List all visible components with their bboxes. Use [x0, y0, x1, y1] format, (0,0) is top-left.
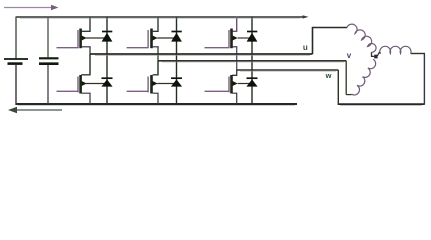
- wire: motor loop right side: [423, 54, 425, 105]
- wire fringe (jpeg-style chroma): [18, 18, 422, 105]
- inductor winding W (horizontal coil): [380, 46, 411, 53]
- transistor Q5 body arrow: [153, 81, 158, 86]
- diode D2/D5 vertical wire: [176, 17, 178, 105]
- wire: leg3 midpoint vertical: [236, 47, 238, 70]
- wire: Q4 gate lead G4: [57, 90, 79, 92]
- capacitor C1 stem bottom: [47, 65, 49, 104]
- diode D4 triangle: [101, 79, 112, 86]
- wire: top DC bus y=17: [16, 15, 309, 18]
- transistor Q1 channel bar: [79, 29, 82, 49]
- transistor Q1 drain wire: [81, 17, 90, 32]
- wire: Q3 body to diode D3: [238, 37, 252, 39]
- star point node: [374, 55, 377, 59]
- transistor Q5 gate bar: [147, 77, 149, 93]
- wire: phase rail V y=60: [158, 60, 346, 62]
- transistor Q4 channel bar: [79, 75, 82, 94]
- wire: W drop from rail: [337, 70, 339, 103]
- transistor Q6 gate bar: [228, 77, 230, 93]
- transistor Q5 channel bar: [150, 75, 153, 94]
- svg-text:w: w: [325, 71, 332, 80]
- capacitor C1 plate 1: [39, 57, 59, 59]
- battery B1 stem top: [15, 17, 17, 59]
- diode D5 triangle: [171, 79, 182, 86]
- transistor Q2 channel bar: [150, 29, 153, 49]
- wire: Q5 body to diode D5: [157, 83, 176, 85]
- transistor Q5 drain wire: [153, 61, 158, 75]
- wire: U coil to star point: [372, 52, 375, 56]
- wire: Q1 gate lead G1: [57, 47, 79, 49]
- diode D6 triangle: [246, 79, 257, 86]
- diode D1 triangle: [102, 33, 113, 42]
- wire: V bottom hook: [346, 94, 351, 96]
- transistor Q3 drain wire: [232, 17, 237, 32]
- transistor Q6 channel bar: [230, 75, 233, 94]
- diode D2 triangle: [171, 33, 182, 42]
- wire: Q6 body to diode D6: [238, 83, 252, 85]
- wire: star point to W coil: [377, 52, 380, 56]
- capacitor C1 stem top: [47, 17, 49, 57]
- diode D1/D4 vertical wire: [106, 17, 108, 105]
- wire: Q4 source stub: [81, 93, 90, 104]
- wire: Q4 body to diode D4: [86, 83, 107, 85]
- diode D3 cathode bar: [247, 31, 257, 33]
- wire: phase rail U y=53.5: [90, 53, 313, 55]
- inductor winding U (diagonal coil): [347, 24, 376, 52]
- svg-text:u: u: [303, 43, 308, 52]
- wire: Q6 gate lead G6: [205, 90, 230, 92]
- wire: leg2 midpoint vertical: [157, 47, 159, 75]
- svg-text:v: v: [347, 51, 352, 60]
- wire: phase rail W y=66: [237, 69, 339, 71]
- wire: V drop from rail: [345, 61, 347, 95]
- battery B1 stem bottom: [15, 65, 17, 105]
- transistor Q2 drain wire: [153, 17, 158, 32]
- wire: Q1 body to diode D1: [86, 37, 107, 39]
- wire: leg1 midpoint vertical: [89, 47, 91, 75]
- top annotation arrow: [4, 5, 59, 11]
- wire: Q5 source stub: [153, 93, 158, 104]
- diode D2 cathode bar: [172, 31, 182, 33]
- capacitor C1 plate 2: [39, 62, 59, 65]
- diode D3/D6 vertical wire: [251, 17, 253, 105]
- transistor Q6 drain wire: [232, 70, 237, 75]
- wire: Q6 source stub: [232, 93, 237, 104]
- wire: Q2 source stub: [153, 46, 159, 48]
- bottom annotation arrow: [8, 107, 62, 113]
- battery B1 minus plate: [8, 62, 23, 65]
- wire: Q1 source stub: [81, 46, 90, 48]
- wire: U riser to motor: [313, 28, 348, 55]
- wire: motor loop bottom: [338, 103, 425, 105]
- diode D6 cathode bar: [247, 77, 258, 79]
- inductor winding V (diagonal coil): [352, 59, 376, 95]
- wire: Q5 gate lead G5: [127, 90, 149, 92]
- transistor Q2 body arrow: [153, 36, 158, 41]
- transistor Q3 gate bar: [228, 30, 230, 48]
- wire: motor loop top right: [411, 53, 426, 55]
- transistor Q3 channel bar: [230, 29, 233, 49]
- transistor Q4 gate bar: [77, 77, 79, 93]
- battery B1 plus plate: [4, 58, 28, 60]
- diode D1 cathode bar: [102, 31, 112, 33]
- wire: bottom DC bus y=104: [16, 103, 298, 105]
- transistor Q1 gate bar: [77, 30, 79, 48]
- transistor Q4 body arrow: [82, 81, 87, 86]
- wire: Q3 gate lead G3: [205, 47, 230, 49]
- diode D4 cathode bar: [102, 77, 113, 79]
- transistor Q4 drain wire: [81, 54, 90, 75]
- transistor Q1 body arrow: [82, 36, 87, 41]
- wire: Q2 gate lead G2: [127, 47, 149, 49]
- transistor Q6 body arrow: [233, 81, 238, 86]
- transistor Q3 body arrow: [233, 36, 238, 41]
- transistor Q2 gate bar: [147, 30, 149, 48]
- diode D3 triangle: [247, 33, 258, 42]
- diode D5 cathode bar: [171, 77, 182, 79]
- wire: Q3 source stub: [232, 46, 237, 48]
- wire: Q2 body to diode D2: [157, 37, 176, 39]
